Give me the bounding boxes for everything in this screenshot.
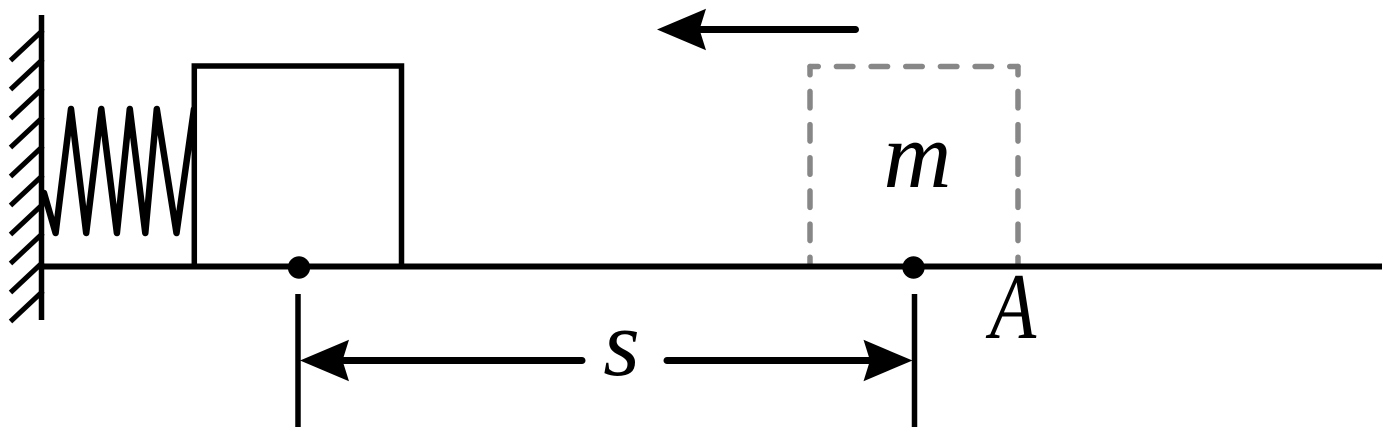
contact dot at A <box>902 256 924 278</box>
svg-text:m: m <box>884 104 952 208</box>
contact dot under block <box>288 256 310 278</box>
svg-text:s: s <box>603 292 640 396</box>
velocity arrow head <box>657 9 706 50</box>
block on spring <box>194 66 401 267</box>
dimension right arrow shaft <box>667 357 869 364</box>
velocity arrow shaft <box>701 26 856 33</box>
ground line <box>39 264 1382 270</box>
left tick mark <box>295 294 301 427</box>
wall hatching <box>11 30 44 322</box>
dashed ghost block (position A) <box>810 67 1018 266</box>
right tick mark <box>912 294 918 427</box>
wall <box>39 15 45 320</box>
dimension left arrow shaft <box>344 357 582 364</box>
dimension right arrow head <box>864 340 913 381</box>
spring <box>44 109 194 233</box>
dimension left arrow head <box>300 340 349 381</box>
svg-text:A: A <box>985 255 1036 359</box>
